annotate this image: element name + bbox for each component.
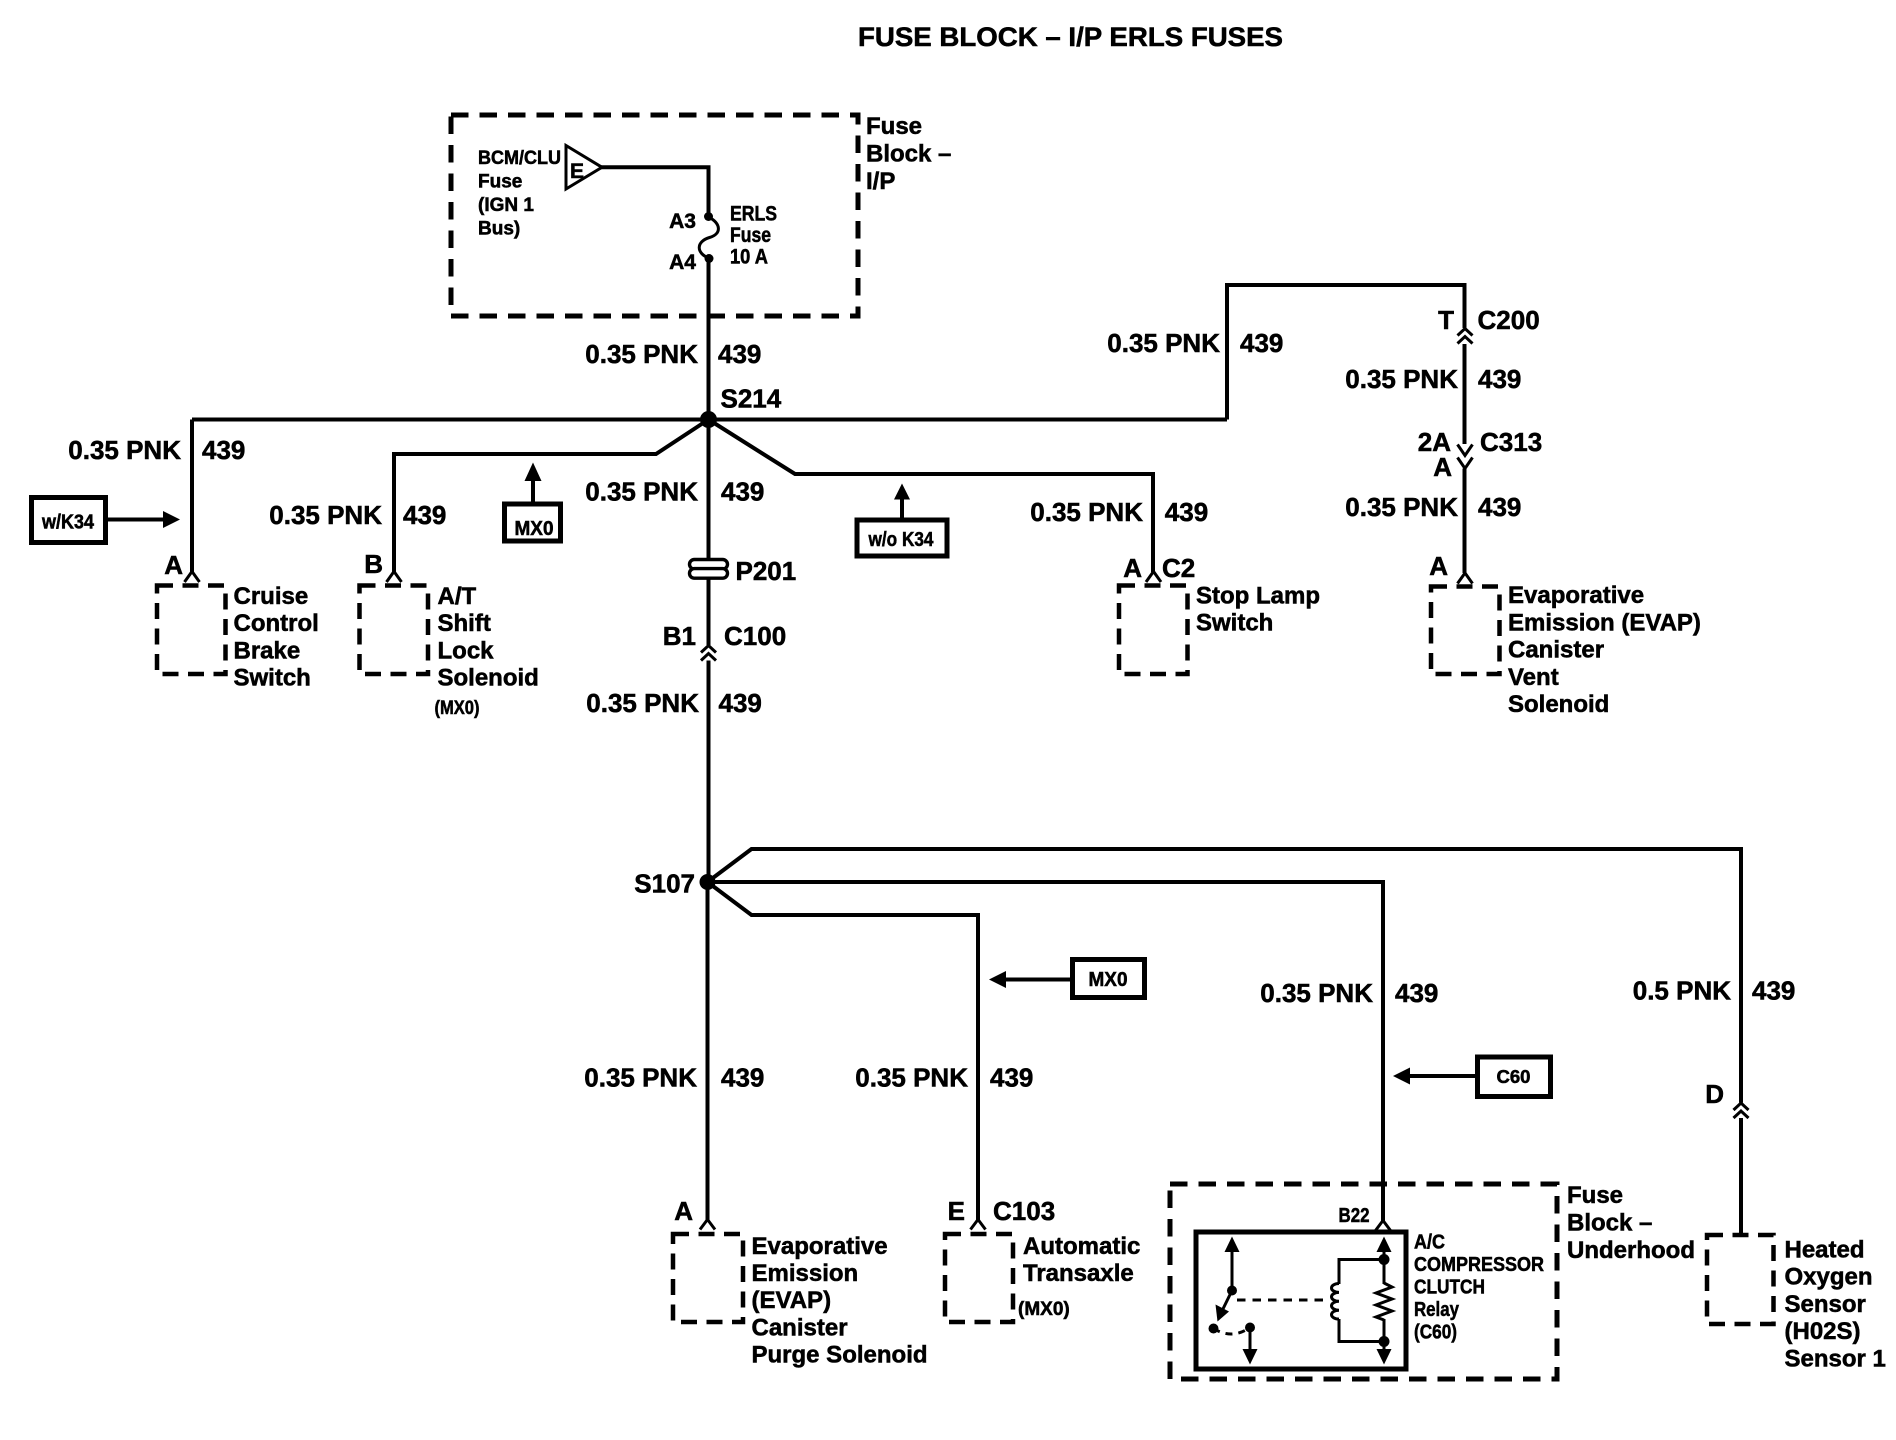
arrow from MX0 to transaxle wire xyxy=(989,971,1073,988)
svg-text:A3: A3 xyxy=(669,210,696,233)
svg-text:0.35 PNK: 0.35 PNK xyxy=(855,1063,968,1093)
A/C compressor clutch relay box xyxy=(1196,1232,1406,1369)
wire A4 to splice S214 xyxy=(707,259,711,421)
svg-text:Canister: Canister xyxy=(752,1314,848,1341)
svg-text:0.35 PNK: 0.35 PNK xyxy=(584,1063,697,1093)
svg-text:A: A xyxy=(1123,553,1142,583)
svg-text:Solenoid: Solenoid xyxy=(1508,691,1609,718)
pin E connector C103 (automatic transaxle) xyxy=(948,1196,1056,1230)
svg-text:w/o K34: w/o K34 xyxy=(868,529,935,551)
pin B (A/T shift lock solenoid) xyxy=(364,549,401,582)
svg-text:w/K34: w/K34 xyxy=(41,512,95,534)
svg-text:Canister: Canister xyxy=(1508,637,1604,664)
fuse block underhood dashed box xyxy=(1170,1184,1557,1379)
relay resistor xyxy=(1376,1283,1392,1320)
label Fuse Block - I/P xyxy=(866,113,951,195)
option box C60 xyxy=(1478,1057,1551,1097)
wire S214 to stop lamp switch branch xyxy=(709,420,1154,573)
svg-text:Purge Solenoid: Purge Solenoid xyxy=(752,1342,928,1369)
wire C100 to splice S107 xyxy=(707,661,711,883)
svg-text:C100: C100 xyxy=(724,621,786,651)
svg-text:439: 439 xyxy=(1395,978,1438,1008)
automatic transaxle box xyxy=(945,1234,1013,1322)
svg-text:Sensor: Sensor xyxy=(1785,1291,1866,1318)
svg-text:B22: B22 xyxy=(1339,1205,1370,1227)
svg-text:439: 439 xyxy=(990,1063,1033,1093)
wire label 0.5 PNK 439 (heated oxygen sensor branch) xyxy=(1633,976,1796,1006)
wire S214 horizontal (left to cruise branch, right to C200 branch) xyxy=(192,418,1227,422)
connector D (heated oxygen sensor) xyxy=(1705,1079,1748,1118)
wire label 0.35 PNK 439 (transaxle branch) xyxy=(855,1063,1033,1093)
pin A connector C2 (stop lamp switch) xyxy=(1123,553,1195,583)
splice S107 xyxy=(634,869,715,899)
relay coil bottom junction xyxy=(1379,1336,1390,1347)
svg-text:Oxygen: Oxygen xyxy=(1785,1264,1873,1291)
grommet P201 xyxy=(690,556,797,586)
wire label 0.35 PNK 439 (cruise branch) xyxy=(68,435,245,465)
svg-text:439: 439 xyxy=(1752,976,1795,1006)
svg-text:0.35 PNK: 0.35 PNK xyxy=(1345,364,1458,394)
svg-text:E: E xyxy=(570,160,584,183)
svg-text:A: A xyxy=(674,1196,693,1226)
svg-text:Bus): Bus) xyxy=(478,219,520,240)
wire S214 down to grommet P201 and C100 xyxy=(707,420,711,646)
connector C200 pin T xyxy=(1438,305,1540,344)
relay coil top junction xyxy=(1379,1254,1390,1265)
svg-text:0.35 PNK: 0.35 PNK xyxy=(1030,497,1143,527)
wire label 0.35 PNK 439 (A/C relay branch) xyxy=(1260,978,1438,1008)
option box w/o K34 xyxy=(857,520,947,556)
pin A (EVAP vent solenoid) xyxy=(1429,551,1472,584)
arrow from w/o K34 up to stop lamp wire xyxy=(894,484,910,521)
wire label 0.35 PNK 439 (S214 to C100) xyxy=(585,477,764,507)
svg-text:Evaporative: Evaporative xyxy=(752,1233,888,1260)
svg-text:Heated: Heated xyxy=(1785,1237,1865,1264)
option box MX0 (A/T branch) xyxy=(505,504,561,541)
svg-text:(MX0): (MX0) xyxy=(1018,1299,1070,1320)
arrow from w/K34 to cruise wire xyxy=(106,511,181,528)
relay coil xyxy=(1331,1284,1339,1320)
relay second contact with down arrow xyxy=(1243,1323,1258,1365)
label Stop Lamp Switch xyxy=(1196,582,1320,636)
svg-text:S107: S107 xyxy=(634,869,695,899)
wire label 0.35 PNK 439 (A/T branch) xyxy=(269,500,446,530)
svg-text:I/P: I/P xyxy=(866,168,895,195)
svg-text:0.5 PNK: 0.5 PNK xyxy=(1633,976,1731,1006)
wire C200 to C313 xyxy=(1463,344,1467,444)
svg-text:COMPRESSOR: COMPRESSOR xyxy=(1414,1254,1544,1276)
splice S214 xyxy=(700,384,782,429)
svg-text:(C60): (C60) xyxy=(1414,1322,1457,1344)
wire S107 down to EVAP purge solenoid xyxy=(706,882,710,1221)
label ERLS Fuse 10 A xyxy=(730,203,777,269)
label Heated Oxygen Sensor (H02S) Sensor 1 xyxy=(1785,1237,1886,1373)
svg-text:B1: B1 xyxy=(663,621,696,651)
EVAP canister vent solenoid box xyxy=(1431,587,1500,675)
pin B22 (A/C compressor clutch relay) xyxy=(1339,1205,1391,1231)
svg-text:Control: Control xyxy=(234,610,319,637)
svg-text:Stop Lamp: Stop Lamp xyxy=(1196,582,1320,609)
svg-text:0.35 PNK: 0.35 PNK xyxy=(1345,492,1458,522)
title FUSE BLOCK - I/P ERLS FUSES xyxy=(858,22,1283,52)
svg-text:Fuse: Fuse xyxy=(730,224,771,247)
pin A (EVAP purge solenoid) xyxy=(674,1196,715,1230)
label Evaporative Emission (EVAP) Canister Vent Solenoid xyxy=(1508,582,1701,718)
relay switch arm with up arrow xyxy=(1225,1237,1240,1296)
label A/T Shift Lock Solenoid (MX0) xyxy=(435,583,539,719)
svg-text:B: B xyxy=(364,549,383,579)
relay main vertical with arrows xyxy=(1377,1237,1392,1365)
svg-text:MX0: MX0 xyxy=(1089,969,1128,991)
svg-text:0.35 PNK: 0.35 PNK xyxy=(585,477,698,507)
svg-text:MX0: MX0 xyxy=(515,518,554,540)
svg-text:C200: C200 xyxy=(1478,305,1540,335)
heated oxygen sensor box xyxy=(1707,1235,1774,1324)
svg-text:439: 439 xyxy=(721,477,764,507)
option box MX0 (transaxle branch) xyxy=(1073,960,1145,998)
svg-text:Solenoid: Solenoid xyxy=(438,665,539,692)
svg-text:T: T xyxy=(1438,305,1454,335)
svg-text:0.35 PNK: 0.35 PNK xyxy=(586,688,699,718)
wire label 0.35 PNK 439 (S214 to C200) xyxy=(1107,328,1283,358)
wire label 0.35 PNK 439 (stop lamp branch) xyxy=(1030,497,1208,527)
pin A (cruise control brake switch) xyxy=(164,550,199,582)
svg-text:(MX0): (MX0) xyxy=(435,698,480,719)
svg-text:439: 439 xyxy=(1240,328,1283,358)
relay stationary contact xyxy=(1209,1324,1219,1334)
wire S214 to A/T shift lock branch xyxy=(394,420,709,573)
connector C313 pin 2A to pin A xyxy=(1418,427,1542,482)
svg-text:Brake: Brake xyxy=(234,637,301,664)
svg-text:Emission (EVAP): Emission (EVAP) xyxy=(1508,609,1701,636)
fuse block I/P dashed box xyxy=(451,115,858,316)
svg-text:(H02S): (H02S) xyxy=(1785,1318,1861,1345)
arrow from MX0 up to A/T wire xyxy=(525,463,542,507)
svg-text:Underhood: Underhood xyxy=(1567,1237,1695,1264)
svg-text:S214: S214 xyxy=(721,384,782,414)
svg-text:439: 439 xyxy=(403,500,446,530)
svg-text:Automatic: Automatic xyxy=(1023,1233,1140,1260)
svg-text:Emission: Emission xyxy=(752,1260,859,1287)
svg-text:E: E xyxy=(948,1196,965,1226)
wire S214 top right run to C200 xyxy=(1227,285,1465,420)
label Fuse Block - Underhood xyxy=(1567,1182,1695,1264)
wire label 0.35 PNK 439 (fuse to S214) xyxy=(585,339,761,369)
svg-text:Fuse: Fuse xyxy=(478,172,522,193)
svg-text:Lock: Lock xyxy=(438,637,495,664)
label Automatic Transaxle (MX0) xyxy=(1018,1233,1140,1320)
svg-text:P201: P201 xyxy=(736,556,797,586)
svg-text:0.35 PNK: 0.35 PNK xyxy=(269,500,382,530)
svg-text:BCM/CLU: BCM/CLU xyxy=(478,148,561,169)
svg-text:Evaporative: Evaporative xyxy=(1508,582,1644,609)
relay dashed contact arc xyxy=(1214,1328,1251,1335)
svg-text:C313: C313 xyxy=(1480,427,1542,457)
svg-text:C60: C60 xyxy=(1497,1067,1531,1087)
A/T shift lock solenoid box xyxy=(360,586,429,675)
relay actuation dashed link xyxy=(1237,1299,1324,1302)
svg-text:C2: C2 xyxy=(1162,553,1195,583)
svg-text:0.35 PNK: 0.35 PNK xyxy=(1260,978,1373,1008)
wire label 0.35 PNK 439 (C200 to C313) xyxy=(1345,364,1521,394)
wire label 0.35 PNK 439 (C100 to S107) xyxy=(586,688,762,718)
svg-text:CLUTCH: CLUTCH xyxy=(1414,1277,1485,1299)
svg-text:D: D xyxy=(1705,1079,1724,1109)
svg-text:(EVAP): (EVAP) xyxy=(752,1287,832,1314)
option box w/K34 xyxy=(32,498,106,543)
svg-text:Fuse: Fuse xyxy=(1567,1182,1623,1209)
wire from E triangle to pin A3 xyxy=(601,167,709,216)
wire S107 to heated oxygen sensor branch xyxy=(708,849,1742,1103)
relay coil branch wire xyxy=(1339,1260,1384,1342)
svg-text:439: 439 xyxy=(719,688,762,718)
svg-text:439: 439 xyxy=(1478,492,1521,522)
label Evaporative Emission (EVAP) Canister Purge Solenoid xyxy=(752,1233,928,1369)
svg-text:A: A xyxy=(164,550,183,580)
pin A4 xyxy=(669,251,713,274)
svg-text:Cruise: Cruise xyxy=(234,583,309,610)
svg-text:FUSE BLOCK – I/P ERLS FUSES: FUSE BLOCK – I/P ERLS FUSES xyxy=(858,22,1283,52)
svg-text:ERLS: ERLS xyxy=(730,203,777,226)
svg-text:0.35 PNK: 0.35 PNK xyxy=(68,435,181,465)
relay switch moving contact arrow xyxy=(1216,1291,1233,1322)
svg-text:439: 439 xyxy=(202,435,245,465)
svg-text:10 A: 10 A xyxy=(730,246,768,269)
wire C313 to EVAP vent solenoid xyxy=(1463,469,1467,574)
wire label 0.35 PNK 439 (C313 to vent solenoid) xyxy=(1345,492,1521,522)
connector C100 pin B1 xyxy=(663,621,786,661)
triangle connector E (BCM/CLU fuse feed) xyxy=(566,146,602,190)
EVAP canister purge solenoid box xyxy=(673,1234,743,1322)
svg-text:(IGN 1: (IGN 1 xyxy=(478,195,534,216)
pin A3 xyxy=(669,210,713,233)
svg-text:0.35 PNK: 0.35 PNK xyxy=(585,339,698,369)
cruise control brake switch box xyxy=(157,586,226,675)
svg-text:0.35 PNK: 0.35 PNK xyxy=(1107,328,1220,358)
svg-text:A/T: A/T xyxy=(438,583,477,610)
wire D connector to heated oxygen sensor xyxy=(1739,1118,1743,1235)
svg-text:A: A xyxy=(1429,551,1448,581)
label BCM/CLU Fuse (IGN 1 Bus) xyxy=(478,148,561,240)
svg-text:Fuse: Fuse xyxy=(866,113,922,140)
svg-text:Switch: Switch xyxy=(234,665,311,692)
wire S107 to automatic transaxle branch xyxy=(708,882,979,1221)
fuse ERLS 10A element xyxy=(699,217,718,258)
arrow from C60 to relay wire xyxy=(1393,1068,1478,1085)
svg-text:439: 439 xyxy=(721,1063,764,1093)
wire S107 to A/C relay branch xyxy=(708,882,1384,1221)
wire cruise branch vertical xyxy=(190,420,194,573)
svg-text:A4: A4 xyxy=(669,251,696,274)
wire label 0.35 PNK 439 (purge solenoid branch) xyxy=(584,1063,764,1093)
svg-text:Block –: Block – xyxy=(1567,1209,1652,1236)
svg-text:A/C: A/C xyxy=(1414,1232,1445,1254)
svg-text:Block –: Block – xyxy=(866,141,951,168)
svg-text:Sensor 1: Sensor 1 xyxy=(1785,1345,1886,1372)
svg-text:Vent: Vent xyxy=(1508,664,1559,691)
svg-text:Shift: Shift xyxy=(438,610,491,637)
svg-text:Relay: Relay xyxy=(1414,1299,1460,1321)
svg-text:A: A xyxy=(1433,452,1452,482)
svg-text:439: 439 xyxy=(718,339,761,369)
svg-text:Transaxle: Transaxle xyxy=(1023,1260,1134,1287)
svg-text:439: 439 xyxy=(1165,497,1208,527)
svg-text:439: 439 xyxy=(1478,364,1521,394)
label A/C COMPRESSOR CLUTCH Relay (C60) xyxy=(1414,1232,1544,1344)
stop lamp switch box xyxy=(1119,586,1188,675)
svg-text:C103: C103 xyxy=(993,1196,1055,1226)
svg-text:Switch: Switch xyxy=(1196,610,1273,637)
label Cruise Control Brake Switch xyxy=(234,583,319,692)
